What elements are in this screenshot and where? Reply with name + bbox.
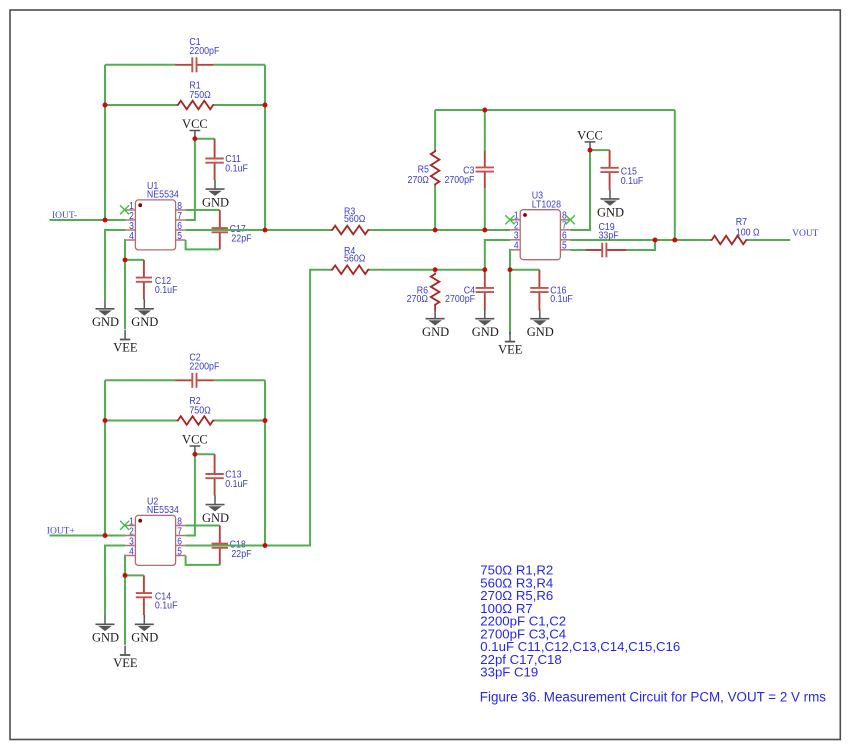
svg-text:GND: GND [472, 325, 499, 339]
junction R2 right [263, 418, 268, 423]
wire U3 pin 7 to VCC [570, 150, 590, 230]
junction R1 right [263, 103, 268, 108]
svg-text:33pF: 33pF [599, 230, 619, 242]
junction IOUT- / feedback node [103, 218, 108, 223]
capacitor C1 [175, 36, 219, 72]
svg-text:560Ω: 560Ω [344, 253, 365, 265]
wire U3 feedback top [435, 109, 675, 111]
svg-text:5: 5 [177, 546, 182, 557]
wire C1 right [214, 64, 265, 66]
junction R5 bottom / R3 net [433, 228, 438, 233]
junction U2 VEE node [123, 573, 128, 578]
svg-text:0.1uF: 0.1uF [225, 478, 248, 490]
wire R5 bottom lead [434, 186, 436, 230]
ground under C14 [131, 615, 158, 645]
wire U1 pin 3 to ground [105, 230, 125, 300]
junction VCC U3 [588, 148, 593, 153]
wire C2 left [105, 379, 175, 381]
svg-text:VCC: VCC [577, 129, 603, 143]
capacitor C3 [444, 151, 494, 188]
capacitor C13 [205, 454, 248, 495]
wire R1 right [215, 104, 265, 106]
wire U2 feedback left vertical [104, 380, 106, 535]
power VCC (U1) [182, 117, 208, 139]
wire C1 left [105, 64, 175, 66]
op-amp U3 LT1028 [510, 190, 570, 260]
capacitor C19 [586, 221, 627, 257]
junction U1 VEE node [123, 257, 128, 262]
svg-text:0.1uF: 0.1uF [155, 284, 178, 296]
wire U2 pin 4 down [124, 556, 126, 576]
junction IOUT+ / feedback node [103, 533, 108, 538]
wire U1 output to R3 [265, 229, 331, 231]
svg-text:GND: GND [92, 315, 119, 329]
svg-text:GND: GND [527, 325, 554, 339]
svg-text:GND: GND [422, 325, 449, 339]
ground U1 pin 3 [92, 300, 119, 330]
no-connect U1 pin 1 [120, 205, 129, 214]
power VEE (U3) [498, 332, 523, 356]
svg-text:GND: GND [597, 205, 624, 219]
wire U1 to VEE [124, 260, 126, 329]
capacitor C17 [212, 210, 252, 249]
svg-text:33pF C19: 33pF C19 [480, 665, 538, 680]
wire U1 pin 5 loop [186, 240, 220, 249]
resistor R7 [710, 217, 759, 245]
ground under C4 [472, 309, 499, 339]
wire U1 pin 6 output [186, 229, 265, 231]
wire U2 pin 5 loop [186, 556, 220, 565]
wire IOUT- input to U1 pin 2 [49, 219, 125, 221]
junction VCC U2 [192, 452, 197, 457]
ground under C12 [131, 300, 158, 330]
svg-text:2700pF: 2700pF [445, 293, 475, 305]
wire U2 output up to R4 [265, 270, 331, 546]
wire U3 to VEE [509, 270, 511, 335]
wire VCC to C11 [195, 138, 215, 140]
figure caption [480, 690, 826, 705]
wire IOUT+ input to U2 pin 2 [49, 535, 125, 537]
svg-text:22pF: 22pF [231, 233, 251, 245]
wire U1 feedback left vertical [104, 65, 106, 220]
wire R7 to VOUT [748, 239, 791, 241]
junction U3 VEE node [508, 267, 513, 272]
wire U3 pin 4 down [509, 250, 511, 270]
ground under R6 [422, 309, 449, 339]
capacitor C12 [136, 260, 178, 300]
ground under C13 [202, 495, 229, 525]
wire U2 to VEE [124, 575, 126, 644]
junction feedback / output [672, 238, 677, 243]
resistor R5 [408, 150, 440, 186]
svg-text:GND: GND [92, 631, 119, 645]
capacitor C2 [175, 352, 219, 388]
svg-text:0.1uF: 0.1uF [621, 175, 644, 187]
wire U1 feedback right vertical [264, 65, 266, 230]
wire U3 output [570, 239, 710, 241]
svg-text:LT1028: LT1028 [532, 199, 561, 211]
junction U1 output node [263, 228, 268, 233]
power VCC (U2) [182, 433, 208, 455]
junction U2 output node [263, 543, 268, 548]
svg-text:GND: GND [202, 196, 229, 210]
resistor R6 [407, 273, 440, 307]
svg-text:VOUT: VOUT [792, 229, 819, 239]
wire C19 to output [627, 240, 655, 250]
wire VCC to C15 [590, 149, 610, 151]
op-amp U1 NE5534 [125, 180, 185, 250]
wire U2 pin 8 to C18 [186, 525, 220, 527]
svg-text:2200pF: 2200pF [189, 361, 219, 373]
svg-text:270Ω: 270Ω [408, 174, 429, 186]
wire U2 feedback right vertical [264, 380, 266, 545]
wire R2 right [215, 420, 265, 422]
svg-text:4: 4 [129, 546, 134, 557]
wire U1 pin 4 down [124, 240, 126, 260]
svg-text:GND: GND [131, 315, 158, 329]
wire C2 right [214, 379, 265, 381]
capacitor C11 [205, 139, 248, 180]
junction R2 left [103, 418, 108, 423]
svg-text:VEE: VEE [498, 343, 523, 357]
ground U2 pin 3 [92, 615, 119, 645]
svg-text:4: 4 [514, 240, 519, 251]
net label IOUT- [52, 211, 77, 221]
junction R6 top / R4 net [433, 267, 438, 272]
capacitor C4 [445, 270, 494, 311]
power VEE (U1) [113, 330, 138, 354]
svg-text:VCC: VCC [182, 117, 208, 131]
junction C3 bottom / R3 net [482, 228, 487, 233]
power VCC (U3) [577, 129, 603, 151]
svg-text:2700pF: 2700pF [444, 174, 474, 186]
wire R2 left [105, 420, 176, 422]
svg-text:NE5534: NE5534 [147, 505, 179, 517]
svg-text:750Ω: 750Ω [189, 405, 210, 417]
svg-text:22pF: 22pF [231, 548, 251, 560]
net label VOUT [792, 229, 819, 239]
capacitor C16 [530, 270, 573, 311]
ground under C11 [202, 180, 229, 210]
wire U2 pin 7 to VCC [186, 454, 195, 535]
resistor R3 [331, 206, 370, 234]
svg-text:VEE: VEE [113, 656, 138, 670]
wire VCC to C13 [195, 453, 215, 455]
svg-text:GND: GND [131, 631, 158, 645]
wire C3 bottom lead [484, 188, 486, 230]
no-connect U2 pin 1 [120, 521, 129, 530]
junction VCC U1 [192, 136, 197, 141]
ground under C15 [597, 190, 624, 220]
capacitor C14 [136, 575, 178, 615]
no-connect U3 pin 1 [505, 215, 514, 224]
junction C3 top [482, 108, 487, 113]
capacitor C15 [600, 150, 643, 190]
no-connect U3 pin 8 [566, 215, 575, 224]
op-amp U2 NE5534 [125, 496, 185, 566]
svg-text:2200pF: 2200pF [189, 45, 219, 57]
wire R5 top lead [434, 110, 436, 150]
svg-text:VEE: VEE [113, 340, 138, 354]
wire U2 pin 3 to ground [105, 546, 125, 616]
wire VEE node to C14 [125, 574, 144, 576]
junction C19 right [653, 238, 658, 243]
svg-text:560Ω: 560Ω [344, 213, 365, 225]
wire U1 pin 7 to VCC [186, 139, 195, 220]
wire U3 feedback right vertical [674, 110, 676, 240]
wire U3 pin 3 to R4 node [485, 240, 510, 270]
svg-text:100 Ω: 100 Ω [736, 227, 760, 239]
resistor R4 [331, 246, 370, 274]
wire VEE node to C12 [125, 259, 144, 261]
svg-text:NE5534: NE5534 [147, 189, 179, 201]
wire C3 top lead [484, 110, 486, 151]
svg-text:Figure 36. Measurement Circuit: Figure 36. Measurement Circuit for PCM, … [480, 690, 826, 705]
wire VEE node to C16 [510, 269, 539, 271]
wire U1 pin 8 to C17 [186, 209, 220, 211]
resistor R1 [176, 80, 214, 109]
junction R1 left [103, 103, 108, 108]
capacitor C18 [212, 526, 252, 565]
svg-text:270Ω: 270Ω [407, 293, 428, 305]
svg-text:GND: GND [202, 511, 229, 525]
net label IOUT+ [47, 527, 75, 537]
wire U3 pin 5 to C19 [570, 249, 585, 251]
svg-text:VCC: VCC [182, 433, 208, 447]
svg-text:5: 5 [177, 230, 182, 241]
junction C4 / pin-3 node [482, 267, 487, 272]
power VEE (U2) [113, 646, 138, 670]
svg-text:0.1uF: 0.1uF [550, 293, 573, 305]
wire R1 left [105, 104, 176, 106]
ground under C16 [527, 309, 554, 339]
svg-text:0.1uF: 0.1uF [225, 163, 248, 175]
resistor R2 [176, 395, 214, 424]
wire U2 pin 6 output [186, 545, 265, 547]
svg-text:0.1uF: 0.1uF [155, 600, 178, 612]
parts value list [480, 563, 680, 680]
wire R4 to pin-3 node [370, 269, 485, 271]
wire R3 to U3 pin 2 [370, 229, 511, 231]
svg-text:5: 5 [562, 240, 567, 251]
svg-text:4: 4 [129, 230, 134, 241]
svg-text:750Ω: 750Ω [189, 89, 210, 101]
